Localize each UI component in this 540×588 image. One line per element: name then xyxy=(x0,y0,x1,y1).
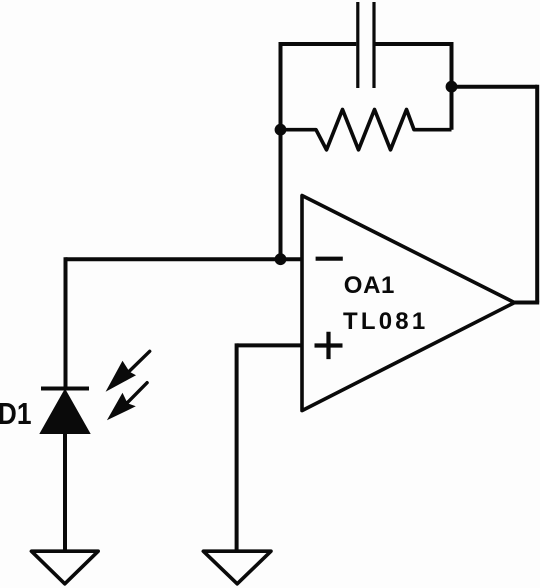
wire: non-inverting input horizontal xyxy=(237,343,302,347)
capacitor C1 right plate xyxy=(372,2,375,88)
wire: output node horizontal to right edge xyxy=(452,85,538,89)
junction dot: node A (inverting input) xyxy=(275,253,287,265)
op-amp U1 triangle body xyxy=(302,196,515,411)
junction dot: resistor left / feedback node xyxy=(275,124,287,136)
junction dot: output feedback node xyxy=(446,81,458,93)
resistor R1 (feedback) xyxy=(281,110,452,150)
wire: left feedback vertical (node A up to capacitor wire) xyxy=(279,44,283,259)
svg-text:D1: D1 xyxy=(0,397,31,431)
light arrow (upper) head xyxy=(106,361,136,392)
wire: right feedback vertical (top wire down to resistor) xyxy=(450,42,454,130)
capacitor C1 left plate xyxy=(356,2,359,88)
op-amp plus sign (non-inverting input) xyxy=(315,332,343,359)
photodiode D1 cathode bar xyxy=(41,387,89,391)
op-amp minus sign (inverting input) xyxy=(316,257,343,261)
svg-text:TL081: TL081 xyxy=(343,308,428,335)
light arrow (lower) head xyxy=(107,393,136,421)
wire: top horizontal to capacitor left plate xyxy=(279,42,357,46)
wire: inverting-input horizontal from photodiode branch to node A xyxy=(66,257,281,261)
light arrow (upper) shaft xyxy=(129,351,150,371)
wire: capacitor right plate to right feedback vertical xyxy=(376,42,452,46)
photodiode D1 triangle (anode, filled) xyxy=(41,391,89,434)
wire: op-amp output horizontal xyxy=(514,301,539,305)
svg-text:OA1: OA1 xyxy=(344,272,395,299)
wire: photodiode branch vertical riser xyxy=(64,257,68,387)
light arrow (lower) shaft xyxy=(127,383,147,403)
wire: non-inverting vertical down to ground xyxy=(235,343,239,551)
wire: right edge vertical down to output xyxy=(535,85,539,303)
ground (left, photodiode) xyxy=(31,551,98,584)
ground (right, op-amp non-inverting) xyxy=(203,551,271,584)
wire: photodiode anode down to ground xyxy=(63,431,67,551)
wire: node A to op-amp inverting input xyxy=(281,257,303,261)
